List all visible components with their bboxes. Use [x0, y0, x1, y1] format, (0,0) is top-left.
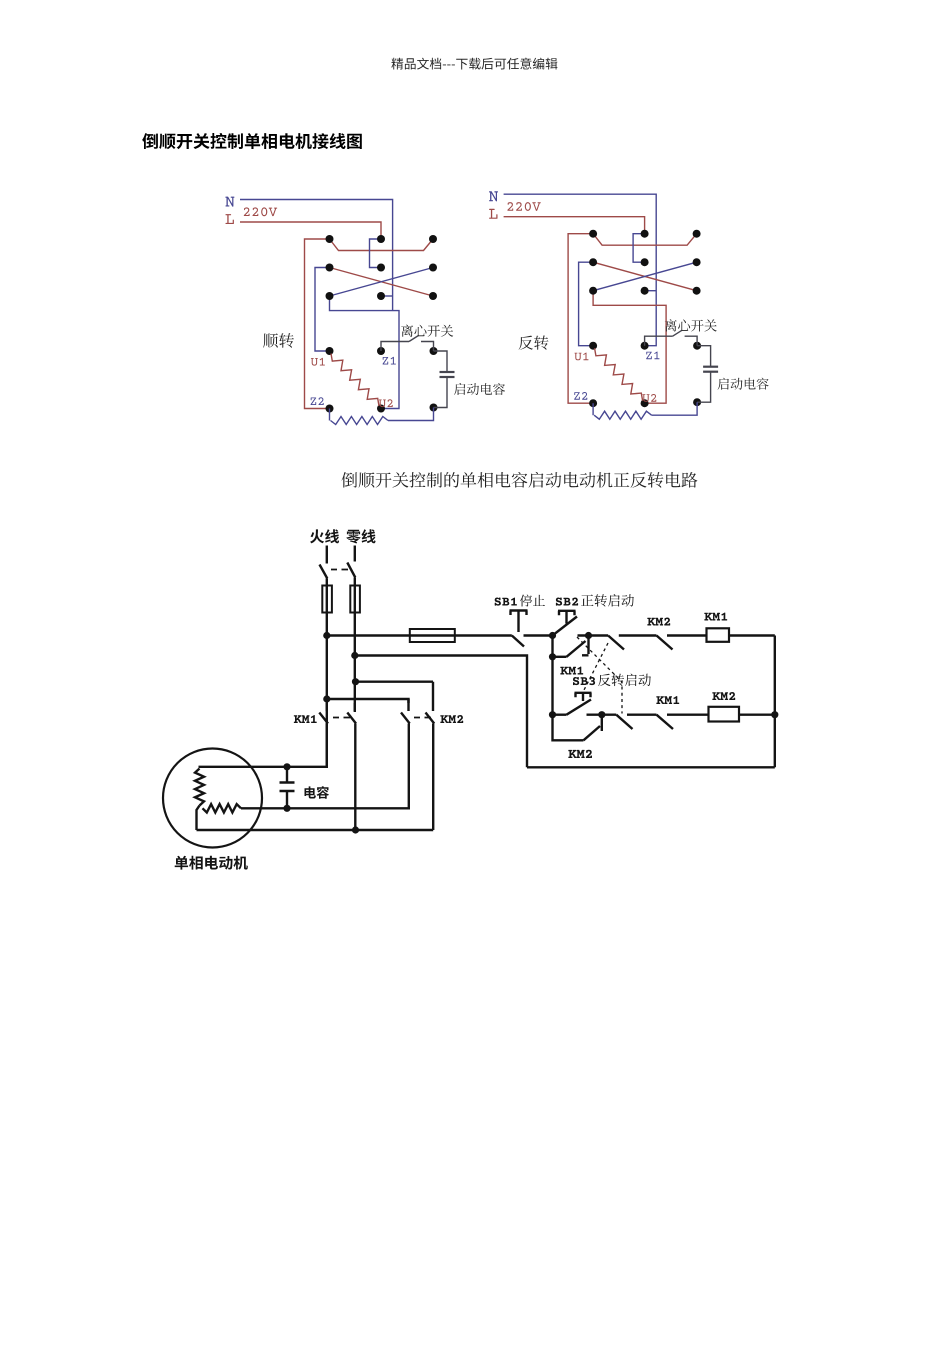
wire N supply (L)	[240, 200, 393, 311]
wire N supply (R)	[504, 194, 657, 346]
label Z2 (L)	[311, 397, 324, 405]
motor circle M	[163, 749, 262, 848]
aux winding zigzag (L)	[331, 417, 389, 425]
wire to U1 (R)	[579, 262, 594, 346]
capacitor C plates	[280, 783, 295, 792]
KM1 aux blade	[567, 641, 586, 657]
wire KM2-A down to aux line	[241, 724, 409, 809]
coil KM1	[707, 628, 730, 642]
label single-phase motor	[175, 856, 248, 870]
label 220V (L)	[244, 207, 277, 216]
knife switch blade live	[320, 546, 328, 579]
motor terminal dots (R)	[589, 342, 701, 408]
wire to Z2 (R)	[568, 234, 593, 404]
label KM1 NC row2	[656, 696, 679, 704]
wire KM2 coil to right rail	[739, 714, 775, 716]
wire row3 to U2 (R)	[593, 291, 666, 404]
wire L supply (L)	[240, 222, 381, 239]
contact KM1-NC row2	[657, 715, 709, 729]
contact KM2-NC row1	[657, 636, 707, 650]
upper figure caption	[342, 472, 698, 488]
label U2 (L)	[379, 399, 393, 407]
wire KM1 coil to right rail	[729, 634, 775, 636]
wire SB2 to node	[578, 634, 609, 636]
stub row3 mid (L)	[381, 295, 393, 297]
start capacitor wire bottom (L)	[434, 377, 448, 408]
contact SB3-NC row1	[608, 636, 656, 650]
label start capacitor (L)	[454, 383, 505, 395]
button SB1 cap	[510, 611, 528, 633]
start capacitor wire bottom (R)	[697, 372, 711, 403]
label fan-zhuan	[519, 335, 549, 349]
KM2 aux loop	[553, 715, 584, 741]
wire cross red (R)	[593, 262, 697, 291]
switch blade row1 (R)	[593, 234, 697, 246]
label huo-xian (live wire)	[310, 529, 339, 543]
wire KM2-B down to bottom	[432, 724, 434, 831]
fuse FU2 neutral	[350, 586, 360, 613]
label KM2 aux	[568, 750, 592, 758]
knife switch blade neutral	[347, 546, 355, 578]
aux winding wire (R)	[592, 403, 594, 415]
wire node to SB3	[553, 714, 567, 716]
label centrifugal switch (R)	[665, 319, 717, 331]
label L (R)	[489, 209, 497, 219]
document header text	[391, 58, 557, 70]
start capacitor plates (R)	[703, 366, 718, 368]
coil KM2	[709, 707, 740, 722]
label shun-zhuan	[263, 333, 294, 348]
interlock dashed link B	[584, 643, 608, 690]
motor main winding zigzag	[195, 769, 204, 806]
label KM1 aux	[560, 667, 583, 675]
label KM2 NC row1	[647, 618, 670, 626]
control rail live	[327, 634, 512, 636]
wire neutral to KM2 pole B	[356, 681, 434, 683]
wire link mid (R)	[633, 234, 645, 263]
label N (R)	[489, 191, 498, 201]
knife switch dashes	[331, 569, 348, 571]
start capacitor wire top (R)	[697, 346, 711, 367]
contact KM1 main pole A	[319, 703, 328, 724]
wire cross red (L)	[330, 268, 434, 297]
wire SB1 to SB2	[524, 634, 553, 636]
wire neutral through fuse	[354, 578, 356, 713]
KM2 aux blade	[584, 726, 601, 740]
label L (L)	[226, 214, 234, 224]
start capacitor plates (L)	[440, 371, 455, 373]
contact SB2-NC row2	[616, 715, 656, 729]
label U1 (L)	[311, 358, 325, 366]
wire KM1-A to motor line	[199, 724, 327, 767]
aux winding wire (L)	[329, 409, 331, 421]
document title	[142, 133, 362, 149]
label U1 (R)	[575, 353, 589, 361]
label start capacitor (R)	[718, 378, 769, 390]
label capacitor C	[305, 786, 330, 799]
label 220V (R)	[507, 202, 540, 211]
button SB3 blade	[567, 700, 592, 715]
wire SB3 to node2	[587, 714, 617, 716]
label centrifugal switch (L)	[401, 325, 453, 337]
node vertical left	[551, 636, 553, 715]
wire to Z2 (L)	[305, 239, 330, 409]
main winding zigzag (L)	[331, 354, 379, 407]
KM1 aux fixed	[582, 636, 589, 656]
label SB3 reverse start	[573, 677, 595, 685]
label Z1 (R)	[646, 352, 659, 360]
fuse FU1 live	[322, 586, 332, 613]
label N (L)	[225, 197, 234, 207]
wire cross blue (R)	[593, 262, 697, 291]
contact KM1 main pole B	[347, 703, 356, 724]
junction dots lower	[283, 632, 778, 834]
wire KM1-B down	[354, 724, 356, 831]
KM1 main dashes	[333, 717, 350, 719]
button SB2 blade	[553, 617, 578, 636]
aux winding wire right (R)	[652, 402, 698, 415]
button SB3 cap	[575, 693, 592, 701]
wire link mid (L)	[370, 239, 382, 268]
control return rail	[355, 656, 527, 768]
label Z1 (L)	[383, 357, 396, 365]
aux winding wire right (L)	[388, 408, 434, 421]
wire live through fuse	[326, 579, 328, 767]
centrifugal switch (R)	[645, 330, 698, 346]
motor terminal dots (L)	[326, 347, 438, 413]
wire to U1 (L)	[315, 268, 330, 352]
button SB1 blade	[512, 636, 524, 647]
label KM1 coil	[704, 613, 727, 621]
capacitor C wires	[286, 767, 288, 809]
interlock dashed link A	[577, 637, 622, 714]
stub row3 mid (R)	[645, 290, 657, 292]
KM2 aux fixed	[601, 715, 603, 731]
wire L supply (R)	[504, 217, 645, 234]
label Z2 (R)	[574, 392, 587, 400]
label KM2 main	[440, 715, 463, 723]
start capacitor wire top (L)	[434, 351, 448, 372]
control right rail	[774, 636, 776, 768]
button SB2 cap	[558, 611, 576, 624]
KM2 main dashes	[414, 717, 431, 719]
switch contact dots (L)	[326, 235, 438, 300]
control bottom rail	[527, 766, 775, 768]
contact KM2 main pole A	[401, 699, 410, 724]
label KM2 coil	[712, 692, 735, 700]
contact KM2 main pole B	[426, 682, 435, 724]
motor aux winding zigzag	[203, 804, 242, 812]
label KM1 main	[294, 715, 317, 723]
label SB2 forward start	[556, 598, 578, 606]
fuse FU3	[410, 629, 455, 642]
label U2 (R)	[643, 394, 657, 402]
centrifugal switch (L)	[381, 336, 434, 352]
label SB1 stop	[495, 598, 517, 606]
wire row3 to U2 (L)	[330, 296, 400, 409]
wire live to KM2 pole A	[327, 699, 409, 703]
motor winding corner	[197, 806, 200, 831]
switch contact dots (R)	[589, 230, 701, 295]
aux winding zigzag (R)	[594, 411, 652, 419]
label ling-xian (neutral wire)	[346, 529, 375, 543]
switch blade row1 (L)	[330, 239, 434, 251]
KM1 aux lead	[553, 656, 567, 658]
main winding zigzag (R)	[595, 348, 643, 401]
motor bottom rail	[197, 829, 434, 831]
wire cross blue (L)	[330, 268, 434, 297]
